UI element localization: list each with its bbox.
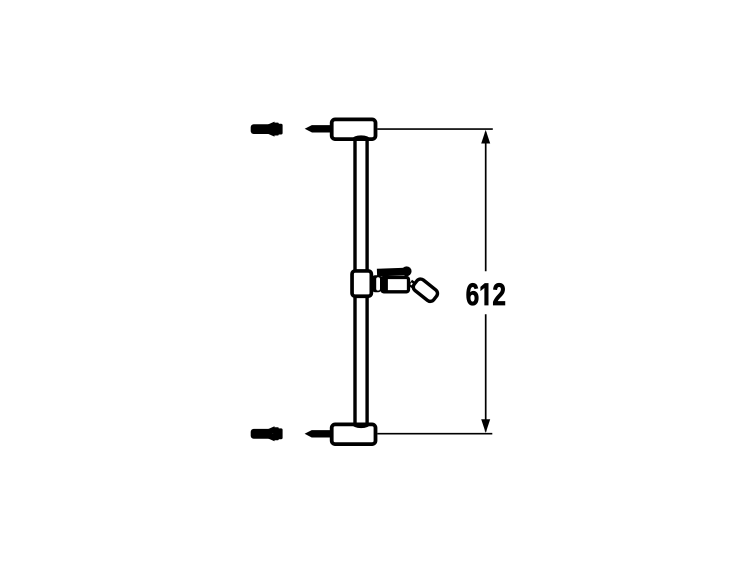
holder socket	[382, 278, 409, 292]
rail tube end cap (top)	[353, 137, 370, 140]
wall plug (bottom anchor)	[251, 426, 283, 441]
slider hinge	[372, 275, 382, 292]
dimension line (lower segment)	[485, 314, 487, 431]
clamp knob	[402, 266, 412, 276]
extension line (top)	[378, 128, 493, 130]
arrowhead down	[481, 419, 490, 433]
arrowhead up	[481, 130, 490, 144]
clamp lever bar	[377, 272, 405, 273]
wall bracket (top)	[332, 119, 376, 139]
rail tube end cap (bottom)	[353, 424, 370, 427]
extension line (bottom)	[378, 433, 493, 435]
holder neck	[410, 283, 417, 288]
screw (top)	[305, 125, 331, 132]
slider block	[352, 271, 371, 296]
screw (bottom)	[305, 430, 331, 437]
handle grip	[411, 277, 439, 303]
wall bracket (bottom)	[332, 424, 376, 444]
rail tube	[355, 140, 367, 425]
dimension text 612	[467, 283, 505, 305]
dimension line (upper segment)	[485, 132, 487, 271]
wall plug (top anchor)	[251, 122, 283, 137]
